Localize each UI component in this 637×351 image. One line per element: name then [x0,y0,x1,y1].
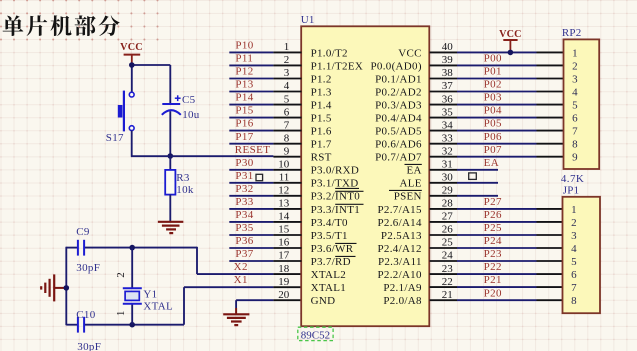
ground left of crystal [41,274,66,301]
wire R3 to ground [169,195,171,221]
svg-text:RP2: RP2 [562,27,582,39]
no-connect marker at pin 30 (ALE) [469,173,477,180]
svg-text:P22: P22 [484,261,502,273]
svg-text:2: 2 [284,54,290,66]
svg-text:C9: C9 [76,226,90,238]
svg-text:5: 5 [284,93,290,105]
wire pin 32 to RP2 [430,156,564,158]
svg-text:VCC: VCC [120,42,143,53]
svg-text:12: 12 [278,185,289,197]
svg-text:5: 5 [572,100,578,112]
U1 right pin numbers 40-21 [442,41,454,301]
svg-text:P23: P23 [484,248,502,260]
svg-text:X1: X1 [234,274,248,286]
svg-text:VCC: VCC [398,47,422,59]
wire pin 28 to JP1 [430,208,563,210]
svg-text:29: 29 [442,185,454,197]
crystal Y1 XTAL [123,288,142,304]
svg-text:S17: S17 [106,132,124,144]
svg-text:XTAL1: XTAL1 [311,282,346,294]
svg-text:P33: P33 [235,196,253,208]
svg-text:P16: P16 [235,118,253,130]
svg-text:13: 13 [278,198,290,210]
svg-text:1: 1 [571,204,577,216]
wire net P15 [229,117,301,119]
svg-text:10k: 10k [176,184,194,196]
svg-text:P04: P04 [484,105,502,117]
svg-text:37: 37 [442,80,454,92]
wire X2 [197,273,302,275]
svg-text:X2: X2 [234,261,248,273]
wire C5 to reset rail [169,111,171,157]
JP1 pin numbers 1-8 [571,204,577,307]
capacitor C10 30pF [78,317,84,333]
svg-text:5: 5 [571,256,577,268]
wire pin 36 to RP2 [430,104,564,106]
wire VCC rail to switch/C5 branch [131,63,170,104]
svg-text:8: 8 [571,295,577,307]
wire pin 24 to JP1 [430,260,563,262]
title text 单片机部分 [3,15,120,36]
svg-text:C10: C10 [76,309,95,321]
svg-text:38: 38 [442,67,454,79]
svg-text:RST: RST [311,152,332,164]
svg-text:10: 10 [278,159,290,171]
svg-text:4.7K: 4.7K [561,173,584,185]
svg-text:23: 23 [442,263,454,275]
svg-text:P3.0/RXD: P3.0/RXD [311,165,360,177]
wire net P17 [229,143,301,145]
svg-text:1: 1 [572,47,578,59]
wire pin 38 to RP2 [430,78,564,80]
svg-text:3: 3 [572,73,578,85]
svg-text:P10: P10 [235,40,253,52]
svg-text:P15: P15 [235,105,253,117]
svg-text:P1.4: P1.4 [311,100,332,112]
svg-text:P00: P00 [484,53,502,65]
svg-text:30pF: 30pF [76,262,100,274]
svg-text:RESET: RESET [235,144,271,156]
resistor pack RP2 [564,39,600,169]
svg-text:19: 19 [278,276,290,288]
svg-text:C5: C5 [182,94,196,106]
svg-text:P2.3/A11: P2.3/A11 [378,256,422,268]
svg-text:P24: P24 [484,235,502,247]
svg-text:P36: P36 [235,235,253,247]
svg-text:6: 6 [571,269,577,281]
svg-text:P1.0/T2: P1.0/T2 [311,47,348,59]
svg-text:31: 31 [442,159,453,171]
svg-text:P31: P31 [235,170,253,182]
U1 left pin numbers 1-20 [278,41,290,301]
svg-text:P26: P26 [484,209,502,221]
svg-text:4: 4 [571,243,577,255]
U1 left pin names [311,47,364,307]
svg-text:P05: P05 [484,118,502,130]
svg-text:P2.2/A10: P2.2/A10 [378,269,422,281]
wire pin 31 stub [430,169,499,171]
svg-text:30: 30 [442,172,454,184]
svg-text:P2.4/A12: P2.4/A12 [378,243,422,255]
svg-text:P3.6/WR: P3.6/WR [311,243,354,255]
svg-text:ALE: ALE [400,178,422,190]
wire pin 22 to JP1 [430,286,563,288]
wire pin 26 to JP1 [430,234,563,236]
svg-text:P27: P27 [484,196,502,208]
svg-text:4: 4 [284,80,290,92]
svg-text:15: 15 [278,224,290,236]
wire GND pin 20 [236,300,301,308]
svg-text:33: 33 [442,132,454,144]
svg-text:18: 18 [278,263,290,275]
svg-text:XTAL: XTAL [143,301,173,313]
svg-text:P34: P34 [235,209,253,221]
svg-text:P17: P17 [235,131,253,143]
wire pin 21 to JP1 [430,299,563,301]
svg-text:P0.2/AD2: P0.2/AD2 [375,86,422,98]
svg-text:11: 11 [279,172,290,184]
wire net P34 [229,221,301,223]
svg-text:P13: P13 [235,79,253,91]
wire pin 39 to RP2 [430,64,564,66]
wire pin 34 to RP2 [430,130,564,132]
svg-text:P1.7: P1.7 [311,139,332,151]
wire net P10 [229,51,301,53]
svg-text:8: 8 [284,132,290,144]
svg-text:3: 3 [571,230,577,242]
svg-text:P11: P11 [235,53,253,65]
svg-text:EA: EA [484,157,499,169]
wire reset node to R3 [169,156,171,170]
capacitor C5 10u [162,95,181,115]
svg-text:6: 6 [572,113,578,125]
svg-text:GND: GND [311,295,336,307]
wire net P12 [229,78,301,80]
svg-text:P1.6: P1.6 [311,126,332,138]
svg-text:1: 1 [115,310,127,316]
svg-text:10u: 10u [182,109,200,121]
svg-text:3: 3 [284,67,290,79]
power VCC (left) [120,42,143,63]
wire pin 29 stub [430,195,499,197]
svg-text:EA: EA [407,165,422,177]
wire pin 35 to RP2 [430,117,564,119]
svg-text:P25: P25 [484,222,502,234]
svg-text:P20: P20 [484,287,502,299]
svg-text:27: 27 [442,211,454,223]
no-connect marker at P31 [256,174,263,180]
wire net P16 [229,130,301,132]
wire X1 [184,286,302,288]
wire switch to reset rail [131,131,133,157]
svg-text:25: 25 [442,237,454,249]
svg-text:2: 2 [115,272,127,278]
junction crystal top node [129,245,135,251]
svg-text:P14: P14 [235,92,253,104]
wire net P32 [229,195,301,197]
svg-text:9: 9 [284,145,290,157]
wire pin 23 to JP1 [430,273,563,275]
svg-text:32: 32 [442,145,453,157]
svg-text:P3.5/T1: P3.5/T1 [311,230,348,242]
wire net P31 [229,182,301,184]
svg-text:P2.6/A14: P2.6/A14 [378,217,422,229]
svg-text:30pF: 30pF [77,341,101,351]
connector JP1 [563,197,601,313]
svg-text:28: 28 [442,198,454,210]
svg-text:P35: P35 [235,222,253,234]
svg-text:P2.1/A9: P2.1/A9 [383,282,422,294]
svg-text:JP1: JP1 [563,185,580,197]
wire crystal column [131,248,133,325]
svg-text:P12: P12 [235,66,253,78]
wire pin 27 to JP1 [430,221,563,223]
svg-text:7: 7 [572,126,578,138]
svg-text:P21: P21 [484,274,502,286]
wire net P37 [229,260,301,262]
wire pin 30 stub [430,182,499,184]
junction VCC pin40 node [508,50,514,56]
svg-text:14: 14 [278,211,290,223]
ground at pin 20 [223,308,249,325]
svg-text:P1.5: P1.5 [311,113,332,125]
wire net P14 [229,104,301,106]
svg-text:17: 17 [278,250,290,262]
svg-text:26: 26 [442,224,454,236]
svg-text:P3.2/INT0: P3.2/INT0 [311,191,361,203]
svg-text:P02: P02 [484,79,502,91]
svg-text:P1.1/T2EX: P1.1/T2EX [311,60,364,72]
svg-text:22: 22 [442,276,453,288]
svg-text:24: 24 [442,250,454,262]
svg-text:P37: P37 [235,248,253,260]
wire crystal bottom rail [66,287,184,325]
wire pin 25 to JP1 [430,247,563,249]
wire crystal top rail [66,247,197,325]
svg-text:39: 39 [442,54,454,66]
svg-text:34: 34 [442,119,454,131]
svg-text:P32: P32 [235,183,253,195]
wire net P11 [229,64,301,66]
svg-text:P30: P30 [235,157,253,169]
wire pin 40 to RP2 [430,51,564,53]
svg-text:35: 35 [442,106,454,118]
svg-text:6: 6 [284,106,290,118]
selection box around 89C52 [298,327,333,340]
wire net P13 [229,91,301,93]
svg-text:P0.6/AD6: P0.6/AD6 [375,139,422,151]
svg-text:9: 9 [572,152,578,164]
svg-text:P2.0/A8: P2.0/A8 [383,295,422,307]
svg-text:7: 7 [571,282,577,294]
wire RESET rail [131,155,302,158]
svg-text:VCC: VCC [499,29,522,40]
svg-text:7: 7 [284,119,290,131]
svg-text:P0.7/AD7: P0.7/AD7 [375,152,422,164]
ground below R3 [158,222,183,233]
svg-text:20: 20 [278,289,290,301]
svg-text:P3.7/RD: P3.7/RD [311,256,351,268]
svg-text:P0.5/AD5: P0.5/AD5 [375,126,422,138]
wire net P36 [229,247,301,249]
svg-text:4: 4 [572,86,578,98]
svg-text:16: 16 [278,237,290,249]
junction ground rail node [64,285,70,291]
svg-text:P3.4/T0: P3.4/T0 [311,217,348,229]
junction crystal bottom node [129,322,135,328]
svg-text:36: 36 [442,93,454,105]
svg-text:P1.3: P1.3 [311,86,332,98]
svg-text:40: 40 [442,41,454,53]
svg-text:1: 1 [284,41,290,53]
svg-text:89C52: 89C52 [301,329,330,341]
junction VCC node [129,62,135,68]
wire net P35 [229,234,301,236]
wire net P33 [229,208,301,210]
resistor R3 10k [165,170,175,195]
svg-text:P03: P03 [484,92,502,104]
svg-text:U1: U1 [301,14,315,26]
svg-text:Y1: Y1 [143,289,157,301]
svg-text:P2.7/A15: P2.7/A15 [378,204,422,216]
junction reset node [168,153,174,159]
capacitor C9 30pF [78,240,84,256]
svg-text:P2.5A13: P2.5A13 [381,230,422,242]
switch S17 [118,91,134,132]
wire net P30 [229,169,301,171]
svg-text:XTAL2: XTAL2 [311,269,346,281]
U1 right pin names [371,47,422,307]
RP2 pin numbers 1-9 [572,47,578,163]
svg-text:8: 8 [572,139,578,151]
wire pin 37 to RP2 [430,91,564,93]
svg-text:P0.4/AD4: P0.4/AD4 [375,113,422,125]
svg-text:P0.0(AD0): P0.0(AD0) [371,60,422,72]
svg-text:P06: P06 [484,131,502,143]
op IC U1 89C52 body [301,26,429,326]
svg-text:P01: P01 [484,66,502,78]
svg-text:P3.3/INT1: P3.3/INT1 [311,204,360,216]
svg-text:P07: P07 [484,144,502,156]
svg-text:P0.1/AD1: P0.1/AD1 [375,73,422,85]
wire pin 33 to RP2 [430,143,564,145]
svg-text:R3: R3 [176,172,190,184]
svg-text:2: 2 [571,217,577,229]
power VCC (right) [499,29,522,52]
active-low overbars on pin names [335,164,422,256]
svg-text:21: 21 [442,289,453,301]
svg-text:PSEN: PSEN [394,191,422,203]
svg-text:2: 2 [572,60,578,72]
svg-text:P0.3/AD3: P0.3/AD3 [375,100,422,112]
svg-text:P1.2: P1.2 [311,73,332,85]
